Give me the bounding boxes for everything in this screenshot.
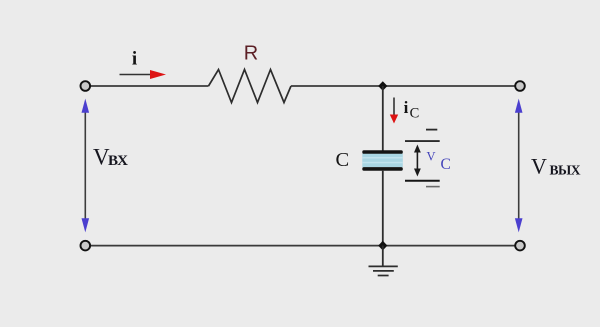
- wire capacitor to bottom: [382, 171, 384, 246]
- label Vвх: [93, 145, 128, 170]
- voltage arrow Vc: [414, 145, 421, 177]
- wire top-right segment: [291, 85, 515, 87]
- svg-text:C: C: [410, 106, 420, 122]
- svg-text:V: V: [531, 154, 547, 179]
- svg-text:ВЫХ: ВЫХ: [550, 163, 581, 178]
- terminal top-left: [81, 81, 91, 91]
- svg-text:V: V: [427, 150, 436, 164]
- label Vc: [427, 150, 451, 174]
- svg-text:R: R: [244, 43, 258, 65]
- svg-text:i: i: [404, 98, 409, 117]
- capacitor C1: [362, 150, 403, 171]
- current arrow iC: [390, 98, 398, 124]
- svg-text:C: C: [441, 156, 451, 173]
- svg-text:ВХ: ВХ: [108, 153, 128, 169]
- voltage arrow Vвх: [82, 99, 90, 233]
- wire top-left segment: [91, 85, 209, 87]
- wire bottom: [91, 245, 515, 247]
- voltage arrow Vвых: [515, 99, 523, 233]
- terminal bottom-right: [515, 241, 525, 251]
- wire junction to capacitor: [382, 86, 384, 151]
- node top junction: [378, 81, 387, 91]
- current arrow i: [120, 70, 167, 79]
- ground: [369, 246, 398, 276]
- terminal top-right: [515, 81, 525, 91]
- svg-text:C: C: [336, 149, 350, 171]
- svg-text:i: i: [132, 49, 137, 70]
- node bottom junction: [378, 241, 387, 251]
- terminal bottom-left: [81, 241, 91, 251]
- label Vвых: [531, 154, 581, 179]
- resistor R: [209, 70, 292, 103]
- label iC: [404, 98, 420, 122]
- voltage Vc measurement marks: [405, 130, 440, 187]
